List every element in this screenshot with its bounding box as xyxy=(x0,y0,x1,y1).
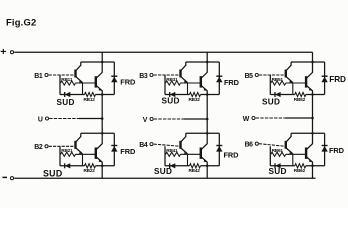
diode SUD1 xyxy=(65,92,71,97)
resistor R B42 xyxy=(190,164,201,168)
wire left branch xyxy=(59,75,61,95)
diode FRD1 xyxy=(111,62,117,95)
wire collector top xyxy=(291,61,325,63)
junction V tap xyxy=(206,118,209,121)
wire speed-up drop xyxy=(187,154,189,166)
transistor Q6a xyxy=(286,133,293,154)
svg-text:SUD: SUD xyxy=(154,167,172,176)
wire +bus xyxy=(14,51,312,53)
wire phase link V xyxy=(206,95,208,134)
terminal B6 xyxy=(255,142,258,145)
svg-text:B5: B5 xyxy=(245,73,254,80)
terminal B4 xyxy=(150,143,153,146)
svg-text:SUD: SUD xyxy=(57,98,75,107)
wire collector top xyxy=(186,61,220,63)
diode FRD3 xyxy=(216,62,222,95)
wire speed-up drop xyxy=(187,83,189,95)
svg-text:FRD: FRD xyxy=(120,147,136,156)
junction col3 mid xyxy=(311,93,314,96)
wire emitter bottom left xyxy=(165,165,190,167)
wire +bus drop W column xyxy=(312,52,314,62)
svg-text:Fig.G2: Fig.G2 xyxy=(6,16,36,27)
svg-text:FRD: FRD xyxy=(329,75,346,84)
transistor Q3a xyxy=(181,62,188,83)
wire base input B3 xyxy=(154,74,181,76)
wire emitter bottom left xyxy=(270,165,295,167)
terminal U xyxy=(45,117,48,120)
svg-text:SUD: SUD xyxy=(269,167,287,176)
transistor Q2a xyxy=(76,133,83,154)
svg-text:RB52: RB52 xyxy=(294,97,306,102)
wire left branch xyxy=(269,146,271,166)
wire emitter bottom right xyxy=(306,94,325,96)
terminal W xyxy=(252,116,255,119)
terminal B3 xyxy=(150,73,153,76)
wire speed-up drop xyxy=(292,154,294,166)
wire Q2 base xyxy=(286,82,306,84)
wire -bus xyxy=(14,177,315,179)
wire Q2 base xyxy=(76,82,96,84)
junction col2 mid xyxy=(206,93,209,96)
svg-text:B1: B1 xyxy=(34,73,43,80)
resistor R B32 xyxy=(190,92,201,96)
wire left branch xyxy=(59,146,61,166)
resistor R B41 xyxy=(166,152,181,156)
transistor Q3b xyxy=(201,62,208,95)
wire -bus drop V column xyxy=(206,166,208,178)
transistor Q6b xyxy=(306,133,313,166)
wire emitter bottom right xyxy=(96,165,115,167)
terminal V xyxy=(150,117,153,120)
wire left branch xyxy=(164,75,166,95)
diode SUD3 xyxy=(170,92,176,97)
svg-text:RB42: RB42 xyxy=(189,168,201,173)
svg-text:FRD: FRD xyxy=(224,78,240,87)
svg-text:SUD: SUD xyxy=(43,168,62,178)
wire emitter bottom right xyxy=(96,94,115,96)
resistor R B12 xyxy=(85,92,96,96)
junction col1 row2 top xyxy=(101,132,104,135)
transistor Q1a xyxy=(76,62,83,83)
transistor Q1b xyxy=(96,62,103,95)
resistor R B62 xyxy=(295,164,306,168)
transistor Q5b xyxy=(306,62,313,95)
resistor R B61 xyxy=(271,152,286,156)
svg-text:B4: B4 xyxy=(139,142,148,149)
terminal B5 xyxy=(255,73,258,76)
transistor Q5a xyxy=(286,62,293,83)
transistor Q4b xyxy=(201,133,208,166)
svg-text:SUD: SUD xyxy=(162,96,180,105)
resistor R B31 xyxy=(166,81,181,85)
wire emitter bottom right xyxy=(201,165,220,167)
wire emitter bottom left xyxy=(270,94,295,96)
resistor R B11 xyxy=(61,81,76,85)
wire +bus drop U column xyxy=(101,52,103,62)
diode SUD6 xyxy=(275,163,281,168)
junction col1 top xyxy=(101,61,104,64)
wire -bus drop U column xyxy=(101,166,103,178)
junction col2 top xyxy=(206,61,209,64)
svg-text:B6: B6 xyxy=(245,142,254,149)
svg-text:RB12: RB12 xyxy=(84,97,96,102)
junction col2 row2 bottom xyxy=(206,165,209,168)
svg-text:W: W xyxy=(243,116,250,123)
diode SUD5 xyxy=(275,92,281,97)
svg-text:SUD: SUD xyxy=(262,98,280,107)
wire +bus drop V column xyxy=(206,52,208,62)
junction col1 mid xyxy=(101,93,104,96)
wire speed-up drop xyxy=(292,83,294,95)
wire phase tap W xyxy=(286,117,313,119)
wire emitter bottom right xyxy=(201,94,220,96)
wire phase tap V dashed xyxy=(154,118,184,120)
wire base input B6 xyxy=(259,144,286,147)
diode SUD4 xyxy=(170,163,176,168)
diode FRD5 xyxy=(321,62,327,95)
diode FRD2 xyxy=(111,133,117,166)
wire Q2 base xyxy=(181,82,201,84)
svg-text:RB32: RB32 xyxy=(189,97,201,102)
wire base input B5 xyxy=(259,74,286,76)
transistor Q4a xyxy=(181,133,188,154)
svg-text:FRD: FRD xyxy=(120,78,136,87)
resistor R B51 xyxy=(271,81,286,85)
junction W tap xyxy=(311,117,314,120)
junction col1 row2 bottom xyxy=(101,165,104,168)
svg-text:B2: B2 xyxy=(34,144,43,151)
svg-text:FRD: FRD xyxy=(329,146,345,155)
wire emitter bottom left xyxy=(165,94,190,96)
terminal B1 xyxy=(45,73,48,76)
wire phase link U xyxy=(101,95,103,134)
resistor R B21 xyxy=(61,152,76,156)
wire phase tap V xyxy=(184,118,208,120)
junction U tap xyxy=(101,117,104,120)
svg-text:RB62: RB62 xyxy=(294,168,306,173)
wire emitter bottom left xyxy=(60,165,85,167)
svg-text:B3: B3 xyxy=(139,73,148,80)
junction col3 top xyxy=(311,61,314,64)
wire Q2 base xyxy=(181,153,201,155)
wire left branch xyxy=(269,75,271,95)
svg-text:+: + xyxy=(0,46,6,58)
wire phase link W xyxy=(312,95,314,134)
wire Q2 base xyxy=(76,153,96,155)
junction col3 row2 bottom xyxy=(311,165,314,168)
svg-text:U: U xyxy=(38,116,43,123)
wire base input B2 xyxy=(49,145,76,147)
wire emitter bottom left xyxy=(60,94,85,96)
wire speed-up drop xyxy=(82,154,84,166)
junction col2 row2 top xyxy=(206,132,209,135)
terminal B2 xyxy=(45,145,48,148)
terminal + supply xyxy=(0,46,13,58)
svg-text:V: V xyxy=(143,117,148,124)
resistor R B22 xyxy=(85,164,96,168)
wire speed-up drop xyxy=(82,83,84,95)
wire base input B4 xyxy=(154,144,181,146)
svg-text:RB22: RB22 xyxy=(84,168,96,173)
wire collector top xyxy=(291,132,325,134)
wire -bus drop W column xyxy=(312,166,314,178)
junction col3 row2 top xyxy=(311,132,314,135)
wire collector top xyxy=(81,61,115,63)
wire collector top xyxy=(186,132,220,134)
terminal - supply xyxy=(2,177,13,180)
wire left branch xyxy=(164,146,166,166)
wire phase tap U xyxy=(79,118,102,120)
wire phase tap U dashed xyxy=(49,118,79,120)
wire phase tap W dashed xyxy=(256,117,286,119)
diode FRD6 xyxy=(321,133,327,166)
transistor Q2b xyxy=(96,133,103,166)
diode SUD2 xyxy=(65,163,71,168)
diode FRD4 xyxy=(216,133,222,166)
svg-text:FRD: FRD xyxy=(224,151,240,160)
wire Q2 base xyxy=(286,153,306,155)
resistor R B52 xyxy=(295,92,306,96)
wire collector top xyxy=(81,132,115,134)
wire emitter bottom right xyxy=(306,165,325,167)
wire base input B1 xyxy=(49,74,76,76)
